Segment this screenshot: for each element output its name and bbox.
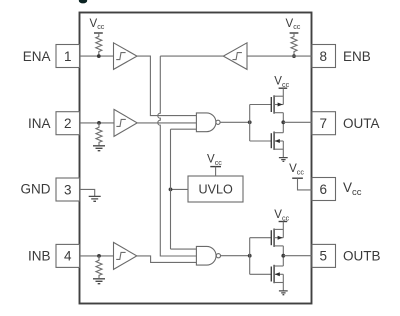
transistor NMOS A <box>271 122 283 157</box>
node dot gate rail B <box>248 254 252 258</box>
pin 3 box <box>56 178 80 201</box>
wire buffer INB output with step to NAND B input 3 <box>137 256 197 263</box>
ground INA pulldown <box>93 146 105 151</box>
schmitt glyph ENA <box>116 53 125 60</box>
wire ENB vertical with hops to NAND B input 2 <box>158 56 197 256</box>
NAND A output bubble <box>216 120 220 124</box>
svg-text:1: 1 <box>64 49 72 64</box>
schmitt buffer INA <box>114 109 137 136</box>
VCC bar output stage A <box>279 87 288 89</box>
pin 2 box <box>56 112 80 135</box>
schmitt buffer ENA <box>114 43 138 70</box>
pin 8 box <box>312 45 336 68</box>
svg-text:cc: cc <box>293 22 301 31</box>
wire VCC to UVLO top <box>215 167 217 176</box>
node dot output B <box>281 254 285 258</box>
VCC bar pin6 internal <box>292 177 303 179</box>
wire pin1 to buffer A input <box>80 55 114 57</box>
VCC bar pin8 pullup <box>290 32 299 34</box>
resistor pulldown INA <box>96 123 102 145</box>
ground pin3 <box>89 196 101 201</box>
svg-text:INA: INA <box>28 116 51 131</box>
NAND gate A <box>196 113 216 132</box>
ground output stage B <box>279 291 288 295</box>
svg-text:7: 7 <box>319 116 327 131</box>
wire UVLO vertical rail <box>170 129 172 249</box>
wire pin8 to buffer ENB input <box>247 55 312 57</box>
wire output A to pin7 <box>283 121 311 123</box>
node dot gate rail A <box>248 120 252 124</box>
transistor PMOS A <box>271 88 283 122</box>
svg-text:GND: GND <box>21 182 51 197</box>
pin 1 box <box>56 45 80 68</box>
wire pin3 to ground <box>80 189 95 196</box>
pin 4 box <box>56 244 80 267</box>
wire VCC to pin6 <box>298 178 312 190</box>
transistor PMOS B <box>271 222 283 256</box>
node dot pin1/resistor <box>97 54 101 58</box>
wire NAND B output to gate rail B <box>221 255 250 257</box>
gate stub PMOS A <box>250 104 272 106</box>
svg-text:8: 8 <box>319 49 327 64</box>
svg-text:ENA: ENA <box>23 49 51 64</box>
wire pin4 to buffer INB input <box>80 255 114 257</box>
gate rail A vertical <box>249 105 251 142</box>
pin 7 box <box>312 112 336 135</box>
schmitt glyph INB <box>116 252 125 259</box>
gate stub PMOS B <box>250 237 272 239</box>
svg-text:cc: cc <box>352 187 362 198</box>
svg-text:INB: INB <box>28 249 51 264</box>
resistor pullup ENA <box>96 33 102 56</box>
node dot pin8/resistor <box>292 54 296 58</box>
gate stub NMOS B <box>250 273 272 275</box>
resistor pullup ENB <box>291 33 297 56</box>
svg-text:3: 3 <box>64 182 72 197</box>
node dot UVLO branch <box>169 188 173 192</box>
wire output B to pin5 <box>283 255 311 257</box>
wire buffer INA output to NAND A input 2 <box>137 122 196 124</box>
svg-text:OUTB: OUTB <box>343 249 381 264</box>
pin 6 box <box>312 178 336 201</box>
schmitt buffer INB <box>114 242 137 269</box>
svg-text:cc: cc <box>297 168 305 177</box>
gate rail B vertical <box>249 238 251 275</box>
NAND B output bubble <box>216 254 220 258</box>
cropped text fragment top <box>79 0 87 3</box>
wire NAND A output to gate rail A <box>220 121 250 123</box>
svg-text:2: 2 <box>64 116 72 131</box>
svg-text:6: 6 <box>319 182 327 197</box>
resistor pulldown INB <box>96 256 102 278</box>
schmitt buffer ENB (points left) <box>223 43 247 70</box>
ground output stage A <box>279 158 288 162</box>
svg-text:5: 5 <box>319 249 327 264</box>
schmitt glyph ENB <box>233 53 242 60</box>
svg-text:cc: cc <box>215 158 223 167</box>
VCC bar pin1 pullup <box>94 32 103 34</box>
svg-text:4: 4 <box>64 249 72 264</box>
node dot pin2/resistor <box>97 121 101 125</box>
svg-text:OUTA: OUTA <box>343 116 380 131</box>
svg-text:ENB: ENB <box>343 49 371 64</box>
VCC bar output stage B <box>279 221 288 223</box>
svg-text:V: V <box>343 180 352 195</box>
UVLO box <box>188 176 243 202</box>
wire UVLO output to node <box>171 188 189 190</box>
VCC bar UVLO <box>210 166 221 168</box>
node dot pin4/resistor <box>97 254 101 258</box>
wire pin2 to buffer INA input <box>80 122 115 124</box>
gate stub NMOS A <box>250 140 272 142</box>
pin 5 box <box>312 244 336 267</box>
wire buffer ENB output to x160 <box>160 55 223 57</box>
node dot output A <box>281 120 285 124</box>
wire NAND A input 3 stub <box>171 128 197 130</box>
NAND gate B <box>196 246 216 265</box>
wire UVLO to NAND B input 1 <box>171 248 197 250</box>
svg-text:UVLO: UVLO <box>199 183 233 197</box>
schmitt glyph INA <box>116 119 125 126</box>
IC outline box <box>80 13 312 304</box>
wire buffer A output to vertical <box>137 56 196 116</box>
svg-text:cc: cc <box>97 22 105 31</box>
transistor NMOS B <box>271 256 283 291</box>
ground INB pulldown <box>93 279 105 284</box>
